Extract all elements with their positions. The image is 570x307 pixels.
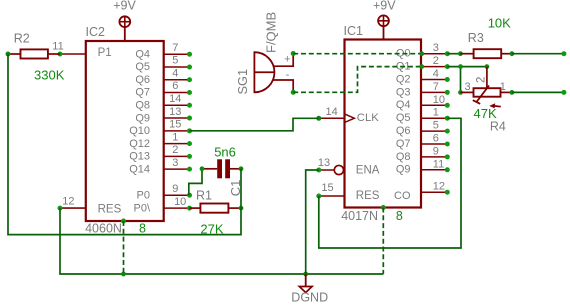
IC1 pin 12 (CO) — [394, 181, 450, 202]
svg-text:IC2: IC2 — [86, 25, 106, 39]
node SG1 plus pin — [291, 51, 296, 56]
wire IC2 Q10 to IC1 CLK — [190, 118, 319, 131]
dashed wire IC2 GND pin to rail — [123, 221, 125, 274]
svg-text:-: - — [286, 69, 290, 81]
svg-text:R3: R3 — [468, 31, 484, 45]
svg-text:5n6: 5n6 — [214, 144, 236, 159]
+9V supply symbol (IC1) — [378, 15, 389, 39]
IC2 pin 13 (Q9) — [135, 106, 192, 125]
resistor R1 — [190, 204, 242, 213]
svg-text:4: 4 — [433, 68, 439, 80]
svg-text:IC1: IC1 — [344, 24, 364, 38]
ground DGND symbol — [299, 274, 312, 293]
svg-text:4: 4 — [172, 67, 178, 79]
svg-text:10: 10 — [174, 196, 186, 208]
dashed wire SG1 minus to IC1 Q1 — [293, 67, 422, 93]
IC1 pin 15 (RES) — [316, 182, 379, 202]
svg-text:Q13: Q13 — [129, 151, 150, 163]
IC1 pin 6 (Q7) — [396, 133, 450, 150]
IC1 pin 2 (Q1) — [396, 55, 450, 72]
wire R2-left down, bottom rail to C1/R1 right — [8, 54, 241, 235]
svg-text:SG1: SG1 — [235, 69, 250, 95]
svg-text:Q4: Q4 — [135, 48, 150, 60]
node dashed/rail junction (IC2) — [121, 272, 126, 277]
node Q1 pin base junction — [419, 64, 424, 69]
svg-text:2: 2 — [475, 77, 487, 83]
svg-text:3: 3 — [433, 42, 439, 54]
IC2 pin 9 (P0) — [137, 183, 192, 202]
svg-text:F/QMB: F/QMB — [263, 12, 278, 53]
svg-text:2: 2 — [433, 55, 439, 67]
svg-text:CO: CO — [394, 190, 411, 202]
node R3 right junction — [510, 51, 515, 56]
node SG1 minus pin — [291, 90, 296, 95]
svg-text:10: 10 — [433, 94, 445, 106]
svg-text:2: 2 — [172, 144, 178, 156]
svg-text:Q10: Q10 — [129, 125, 150, 137]
svg-text:11: 11 — [433, 158, 444, 170]
svg-text:Q8: Q8 — [135, 99, 150, 111]
svg-text:5: 5 — [433, 120, 439, 132]
svg-text:Q9: Q9 — [396, 164, 411, 176]
svg-text:13: 13 — [169, 106, 181, 118]
svg-text:CLK: CLK — [357, 112, 379, 124]
node C1 right junction — [239, 166, 244, 171]
resistor R3 — [460, 49, 512, 58]
IC2 pin 10 (P0\) — [133, 196, 192, 215]
svg-text:6: 6 — [172, 80, 178, 92]
svg-text:Q12: Q12 — [129, 138, 150, 150]
svg-text:6: 6 — [433, 133, 439, 145]
svg-text:14: 14 — [169, 93, 181, 105]
node Q0 pin base junction — [419, 51, 424, 56]
svg-text:Q9: Q9 — [135, 112, 150, 124]
svg-text:4017N: 4017N — [341, 209, 378, 223]
IC IC1 4017N body — [345, 40, 422, 208]
IC1 GND pin node (bottom) — [381, 205, 386, 210]
svg-text:10K: 10K — [488, 15, 511, 30]
IC2 pin 2 (Q13) — [129, 144, 192, 163]
node C1 left junction — [200, 166, 205, 171]
svg-text:3: 3 — [464, 81, 470, 93]
node output 2 endpoint — [561, 90, 566, 95]
+9V supply symbol (IC2) — [119, 16, 130, 41]
wire pin9 to C1 — [189, 169, 202, 195]
IC2 pin 7 (Q4) — [135, 42, 192, 61]
wire R4 to output node — [512, 91, 564, 93]
IC1 pin 7 (Q3) — [396, 81, 450, 98]
wire IC1 Q1 to R4 wiper and pin3 — [447, 66, 487, 68]
svg-text:13: 13 — [318, 157, 330, 169]
node R4 right junction — [510, 90, 515, 95]
svg-text:Q7: Q7 — [396, 138, 411, 150]
svg-text:Q5: Q5 — [135, 61, 150, 73]
svg-text:R2: R2 — [14, 32, 30, 46]
svg-text:5: 5 — [172, 55, 178, 67]
svg-text:1: 1 — [172, 131, 178, 143]
svg-text:15: 15 — [169, 119, 181, 131]
IC1 pin 14 (CLK) — [316, 106, 379, 124]
svg-text:15: 15 — [321, 182, 333, 194]
dashed wire IC1 GND pin to rail — [382, 208, 384, 275]
IC1 pin 13 (ENA) with inverter bubble — [316, 157, 379, 176]
svg-text:Q8: Q8 — [396, 151, 411, 163]
svg-text:+9V: +9V — [373, 0, 396, 13]
IC1 pin 1 (Q5) — [396, 107, 450, 124]
svg-text:12: 12 — [62, 196, 74, 208]
IC2 pin 12 (RES) — [58, 196, 122, 216]
svg-text:R4: R4 — [490, 120, 506, 134]
node R4 wiper junction — [485, 64, 490, 69]
svg-text:Q3: Q3 — [396, 86, 411, 98]
IC2 pin 3 (Q14) — [129, 157, 192, 176]
IC2 pin 11 (P1) — [52, 41, 111, 60]
svg-text:Q7: Q7 — [135, 87, 150, 99]
IC2 pin 15 (Q10) — [129, 119, 192, 138]
node DGND junction — [303, 272, 308, 277]
svg-text:9: 9 — [172, 183, 178, 195]
svg-text:9: 9 — [433, 145, 439, 157]
svg-text:4060N: 4060N — [85, 222, 122, 236]
wire IC1 ENA to ground rail — [306, 170, 319, 274]
wire R3 to output node — [512, 53, 564, 55]
IC1 pin 10 (Q4) — [396, 94, 450, 111]
svg-text:+: + — [284, 54, 290, 66]
svg-text:330K: 330K — [34, 67, 65, 82]
node R2 left junction — [6, 52, 11, 57]
svg-text:11: 11 — [52, 41, 63, 53]
IC1 pin 5 (Q6) — [396, 120, 450, 137]
svg-text:P0\: P0\ — [133, 202, 150, 214]
svg-text:R1: R1 — [196, 188, 212, 202]
node R3 input junction — [458, 51, 463, 56]
svg-text:14: 14 — [325, 106, 337, 118]
svg-text:Q4: Q4 — [396, 99, 411, 111]
dashed wire SG1 plus to IC1 Q0 — [293, 53, 422, 55]
IC IC2 4060N body — [86, 41, 164, 221]
IC1 pin 9 (Q8) — [396, 145, 450, 162]
wire IC1 Q0 to R3 — [447, 53, 460, 55]
capacitor C1 — [202, 159, 241, 178]
svg-text:12: 12 — [433, 181, 445, 193]
svg-text:8: 8 — [396, 209, 403, 223]
svg-text:8: 8 — [139, 222, 146, 236]
svg-text:1: 1 — [500, 81, 506, 93]
svg-text:P0: P0 — [137, 189, 150, 201]
resistor R2 — [8, 49, 60, 58]
IC2 pin 1 (Q12) — [129, 131, 192, 150]
IC1 pin 4 (Q2) — [396, 68, 450, 85]
svg-text:P1: P1 — [98, 47, 112, 59]
svg-text:7: 7 — [172, 42, 178, 54]
IC2 pin 5 (Q5) — [135, 55, 192, 74]
svg-text:Q2: Q2 — [396, 73, 411, 85]
svg-text:3: 3 — [172, 157, 178, 169]
IC2 pin 14 (Q8) — [135, 93, 192, 112]
svg-text:Q6: Q6 — [135, 74, 150, 86]
svg-text:+9V: +9V — [113, 0, 136, 13]
svg-text:7: 7 — [433, 81, 439, 93]
node R1 right junction — [239, 206, 244, 211]
IC1 pin 11 (Q9) — [396, 158, 450, 175]
trimmer R4 — [461, 67, 512, 109]
IC2 pin 6 (Q7) — [135, 80, 192, 99]
svg-text:ENA: ENA — [356, 165, 380, 177]
svg-text:1: 1 — [433, 107, 439, 119]
node R4 pin3 junction — [458, 90, 463, 95]
svg-text:RES: RES — [356, 190, 380, 202]
node output 1 endpoint — [561, 51, 566, 56]
wire IC1 RES loop to IC1 Q5 — [319, 118, 461, 248]
IC2 GND pin node (bottom) — [121, 219, 126, 224]
wire IC2 RES pin12 to ground rail — [60, 208, 383, 274]
svg-text:Q6: Q6 — [396, 125, 411, 137]
svg-text:DGND: DGND — [291, 290, 328, 304]
IC1 pin 3 (Q0) — [396, 42, 450, 59]
svg-text:RES: RES — [98, 203, 122, 215]
IC2 pin 4 (Q6) — [135, 67, 192, 86]
svg-text:Q14: Q14 — [129, 163, 150, 175]
buzzer SG1 — [254, 52, 293, 92]
svg-text:Q5: Q5 — [396, 112, 411, 124]
node Q1 wire junction — [458, 64, 463, 69]
